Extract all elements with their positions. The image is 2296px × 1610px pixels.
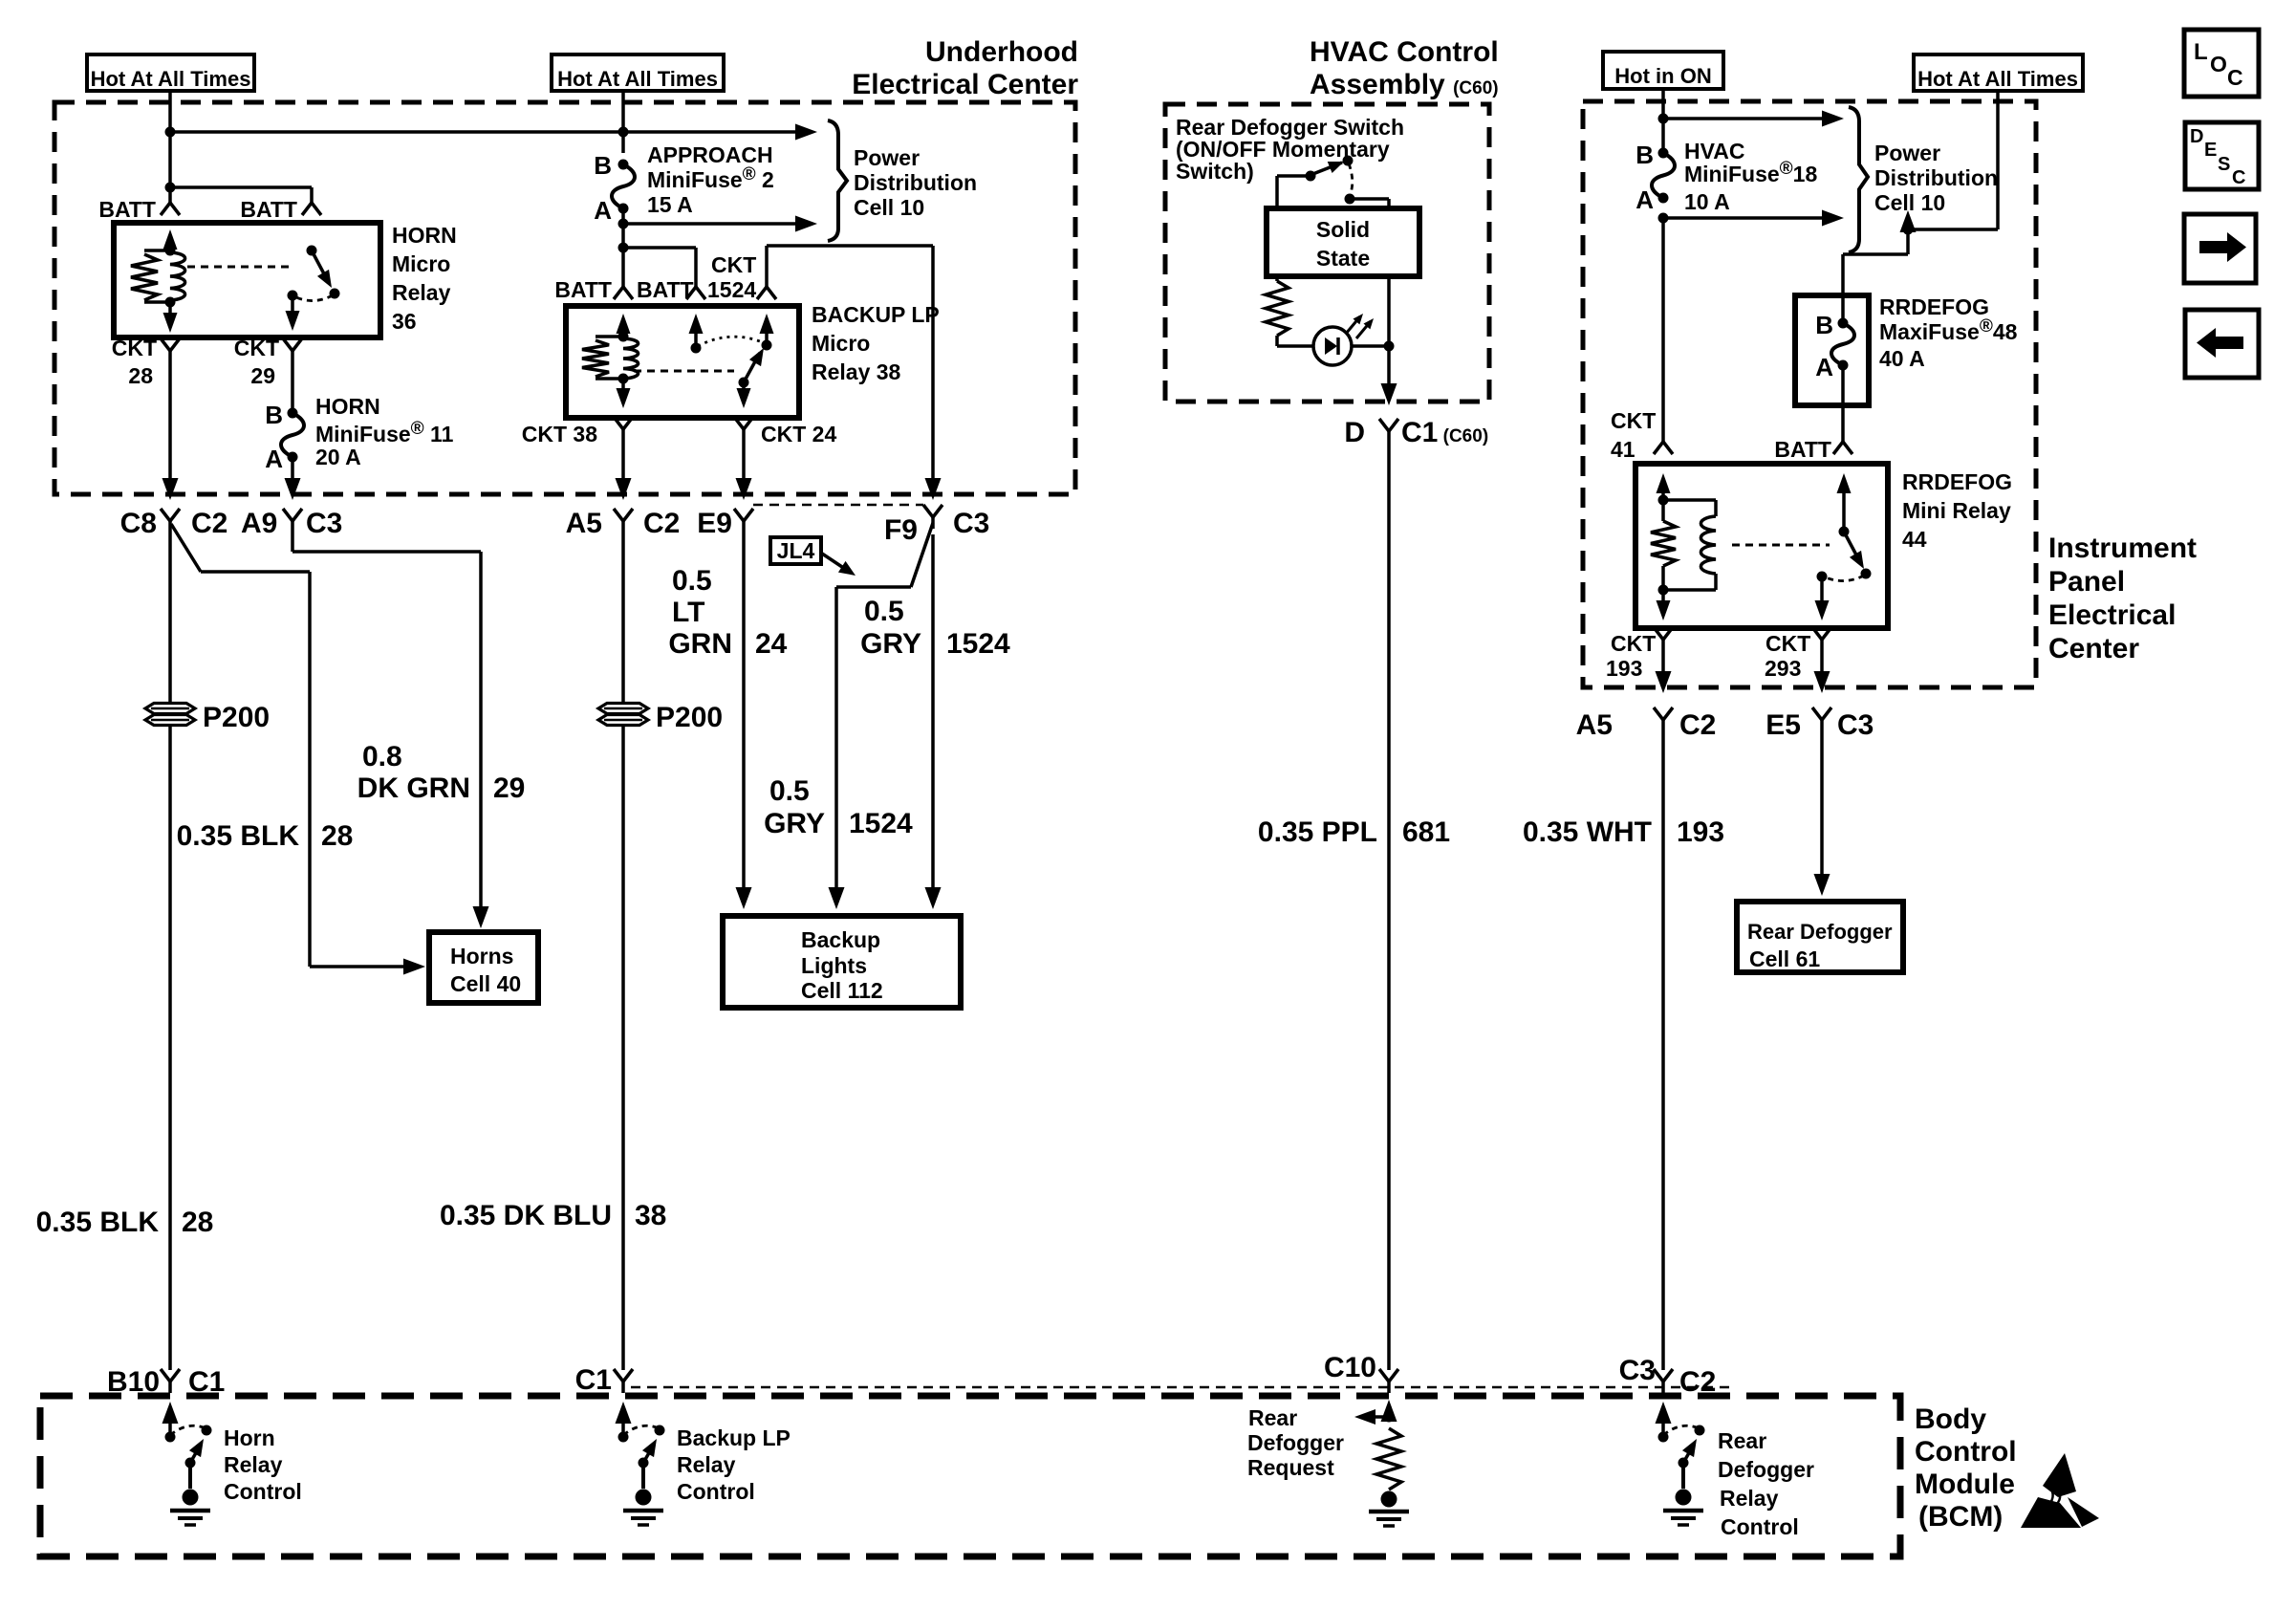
pin connector BATT (relay 38 switch) [686, 287, 705, 299]
junction dot below fuse [618, 219, 629, 229]
relay38 throw dashed arc [698, 337, 765, 346]
svg-text:1524: 1524 [849, 808, 913, 839]
fuse APPROACH MiniFuse 2 [612, 160, 635, 214]
label CKT 293 [1765, 631, 1810, 681]
svg-text:Solid: Solid [1316, 217, 1370, 242]
label E9 [697, 508, 732, 539]
svg-text:Horns: Horns [450, 944, 513, 968]
defogger switch wiring [1277, 176, 1310, 208]
LED light arrows [1346, 311, 1376, 338]
relay38 pivot pin arrow [760, 314, 774, 345]
label 0.8 DK GRN 29 [357, 741, 526, 804]
svg-text:29: 29 [493, 772, 525, 804]
relay38 pivot dot [762, 340, 772, 351]
svg-text:HORN: HORN [392, 223, 457, 248]
relay38 output contact dot [739, 378, 749, 388]
label C1 (C60) [1401, 417, 1488, 448]
svg-text:44: 44 [1902, 527, 1927, 552]
connector A5/C2 [614, 509, 633, 533]
svg-text:A: A [594, 196, 612, 225]
power distribution arrow 2 [623, 216, 817, 232]
wire C3 1524 down [925, 534, 942, 909]
svg-text:RRDEFOG: RRDEFOG [1879, 294, 1989, 319]
relay box RRDEFOG Mini Relay 44 [1635, 464, 1888, 628]
label A5 [1576, 709, 1613, 741]
label 0.5 GRY 1524 (right wire) [860, 596, 1010, 660]
sidebar next-page arrow icon [2184, 214, 2256, 283]
svg-text:Distribution: Distribution [1874, 165, 1998, 190]
wire Hot in ON down [1661, 89, 1665, 153]
svg-text:Power: Power [854, 145, 920, 170]
junction dot coil bottom [618, 374, 629, 384]
svg-text:C1: C1 [188, 1366, 225, 1398]
svg-text:Relay 38: Relay 38 [812, 359, 901, 384]
svg-text:(BCM): (BCM) [1918, 1501, 2003, 1533]
junction dot coil bottom [1658, 585, 1669, 596]
svg-text:1524: 1524 [946, 628, 1010, 660]
relay38 resistor branch [582, 337, 623, 379]
svg-text:Module: Module [1915, 1469, 2015, 1500]
svg-text:C8: C8 [120, 508, 157, 539]
svg-text:BATT: BATT [637, 277, 694, 302]
svg-text:RRDEFOG: RRDEFOG [1902, 469, 2012, 494]
connector E9 [734, 509, 753, 533]
horn relay switch arm contact dot [330, 289, 340, 299]
relay44 switch arm [1844, 532, 1870, 573]
svg-text:0.5: 0.5 [769, 775, 810, 807]
svg-text:E5: E5 [1765, 709, 1801, 741]
power distribution brace (IP) [1849, 107, 1868, 252]
junction dot coil bottom [165, 297, 176, 308]
svg-text:CKT: CKT [711, 252, 756, 277]
svg-text:MiniFuse®18: MiniFuse®18 [1684, 159, 1817, 186]
wire CKT 28 down to border [162, 362, 179, 500]
wire CKT193 down to BCM [1661, 731, 1665, 1370]
svg-text:Control: Control [224, 1479, 302, 1504]
svg-text:S: S [2218, 154, 2230, 175]
inline connector P200 [145, 702, 270, 733]
label Rear Defogger Relay Control [1718, 1428, 1814, 1539]
wire E5 down to rear defogger [1814, 731, 1830, 896]
connector B10/C1 [161, 1369, 180, 1393]
label E5 [1765, 709, 1801, 741]
connector C1 (backup) [614, 1369, 633, 1393]
svg-text:GRY: GRY [860, 628, 921, 660]
pin connector BATT (relay 38 coil) [614, 287, 633, 299]
label HORN Micro Relay 36 [392, 223, 457, 334]
label BATT [554, 277, 612, 302]
relay box BACKUP LP Micro Relay 38 [566, 306, 799, 418]
horn relay coil [170, 252, 185, 300]
label C3 [306, 508, 342, 539]
svg-text:A: A [1815, 353, 1833, 381]
fuse HORN MiniFuse 11 [281, 408, 304, 463]
junction dot coil top [1658, 495, 1669, 506]
sidebar DESC icon [2185, 122, 2259, 189]
svg-text:Cell 40: Cell 40 [450, 971, 521, 996]
Rear Defogger Relay Control switch [1656, 1402, 1705, 1525]
svg-text:B: B [265, 401, 283, 429]
box Horns Cell 40 [429, 932, 538, 1003]
label Underhood Electrical Center [852, 36, 1078, 100]
svg-text:0.35 DK BLU: 0.35 DK BLU [440, 1200, 612, 1231]
label CKT 24 [761, 422, 836, 446]
svg-text:A: A [265, 445, 283, 473]
wire CKT 41 down [1661, 218, 1665, 442]
svg-text:LT: LT [672, 597, 704, 628]
label B [1635, 141, 1654, 169]
svg-text:C1: C1 [575, 1364, 612, 1396]
svg-text:Hot At All Times: Hot At All Times [91, 67, 251, 91]
junction dot coil top [165, 246, 176, 256]
pin connector CKT 1524 [757, 287, 776, 299]
label D [1344, 417, 1365, 448]
svg-text:C3: C3 [953, 508, 989, 539]
label C2 [1679, 1366, 1716, 1398]
svg-text:C2: C2 [643, 508, 680, 539]
label 0.35 DK BLU 38 [440, 1200, 666, 1231]
defogger switch dashed throw [1349, 163, 1353, 196]
label Rear Defogger Switch (ON/OFF Momentary Switch) [1176, 115, 1404, 184]
svg-text:HVAC Control: HVAC Control [1310, 36, 1499, 68]
label C2 [643, 508, 680, 539]
connector E5/C3 (IP) [1812, 707, 1831, 731]
svg-text:20 A: 20 A [315, 445, 361, 469]
label C2 [191, 508, 227, 539]
junction dot below fuse [1658, 213, 1669, 224]
label C1 [575, 1364, 612, 1396]
connector CKT 28 below horn relay [161, 338, 180, 362]
svg-text:CKT 24: CKT 24 [761, 422, 836, 446]
svg-text:15 A: 15 A [647, 192, 693, 217]
svg-text:Rear: Rear [1248, 1405, 1297, 1430]
svg-text:BATT: BATT [554, 277, 612, 302]
svg-text:Control: Control [677, 1479, 755, 1504]
label BATT [98, 197, 156, 222]
svg-text:BATT: BATT [98, 197, 156, 222]
header box 'Hot in ON' [1603, 52, 1723, 89]
svg-text:State: State [1316, 246, 1370, 271]
svg-text:Hot in ON: Hot in ON [1614, 64, 1711, 88]
connector F9/C3 [923, 505, 942, 529]
svg-text:CKT: CKT [1611, 408, 1656, 433]
svg-text:Hot At All Times: Hot At All Times [1917, 67, 2078, 91]
wire CKT 1524 feed [767, 246, 942, 500]
label B [594, 151, 612, 180]
svg-text:MiniFuse® 11: MiniFuse® 11 [315, 419, 454, 446]
svg-text:A9: A9 [241, 508, 277, 539]
resistor (HVAC) [1266, 281, 1289, 336]
label BATT [240, 197, 297, 222]
Horn Relay Control switch [162, 1402, 212, 1525]
wire from left Hot At All Times down [168, 91, 172, 203]
header box 'Hot At All Times' (left) [87, 54, 254, 91]
svg-text:Instrument: Instrument [2048, 533, 2197, 564]
relay44 arm contact dot [1861, 569, 1872, 579]
svg-text:Backup LP: Backup LP [677, 1425, 791, 1450]
connector C3/C2 (BCM) [1654, 1369, 1673, 1393]
svg-text:C: C [2227, 65, 2243, 90]
svg-text:E: E [2204, 140, 2217, 161]
svg-text:Cell 112: Cell 112 [801, 978, 883, 1003]
connector CKT 193 [1654, 627, 1673, 651]
wire CKT 38 to border [616, 441, 632, 500]
svg-text:38: 38 [635, 1200, 666, 1231]
relay44 control dashed link [1732, 544, 1830, 547]
relay38 coil out arrow [617, 379, 631, 408]
power distribution arrow 2 (IP) [1663, 210, 1844, 227]
svg-text:CKT: CKT [1765, 631, 1810, 656]
svg-text:HVAC: HVAC [1684, 139, 1744, 163]
svg-text:0.5: 0.5 [672, 565, 712, 597]
Backup LP Relay Control switch [616, 1402, 665, 1525]
inline connector P200 [598, 702, 723, 733]
Instrument Panel Electrical Center dashed box [1583, 101, 2036, 687]
wire E9 down to backup lights [736, 533, 752, 909]
ESD warning symbol [2021, 1453, 2099, 1528]
svg-text:P200: P200 [656, 702, 723, 733]
svg-text:0.35 WHT: 0.35 WHT [1523, 816, 1652, 848]
connector CKT 29 below horn relay [283, 338, 302, 362]
label 0.35 BLK 28 (lower) [36, 1207, 214, 1238]
svg-text:C10: C10 [1324, 1352, 1376, 1383]
wire HVAC to BCM C10 [1387, 443, 1391, 1370]
svg-text:0.8: 0.8 [362, 741, 402, 772]
label HVAC Control Assembly (C60) [1310, 36, 1499, 100]
junction dot [1658, 114, 1669, 124]
svg-text:1524: 1524 [707, 277, 756, 302]
svg-text:Underhood: Underhood [925, 36, 1078, 68]
svg-text:Rear: Rear [1718, 1428, 1766, 1453]
label A [1815, 353, 1833, 381]
svg-text:E9: E9 [697, 508, 732, 539]
wire branch to BATT2 of relay 38 [623, 248, 696, 287]
power distribution arrow 1 (IP) [1663, 111, 1844, 127]
svg-text:Micro: Micro [812, 331, 870, 356]
defogger switch pole dot [1306, 171, 1316, 182]
relay38 switch arm [744, 345, 769, 383]
svg-text:MiniFuse® 2: MiniFuse® 2 [647, 164, 774, 192]
svg-text:Cell 61: Cell 61 [1749, 946, 1820, 971]
box Backup Lights Cell 112 [723, 916, 961, 1008]
horn relay control dashed link [187, 266, 294, 269]
svg-text:BATT: BATT [240, 197, 297, 222]
label 0.35 WHT 193 [1523, 816, 1724, 848]
svg-text:193: 193 [1677, 816, 1724, 848]
svg-text:C2: C2 [1679, 709, 1716, 741]
svg-text:CKT: CKT [112, 336, 157, 360]
junction dot relay feed [618, 243, 629, 253]
svg-text:Rear Defogger: Rear Defogger [1747, 920, 1893, 944]
svg-text:24: 24 [755, 628, 788, 660]
svg-text:A5: A5 [1576, 709, 1613, 741]
wire solid state right down [1381, 276, 1397, 405]
svg-text:0.35 BLK: 0.35 BLK [177, 820, 300, 852]
svg-text:Control: Control [1915, 1436, 2017, 1468]
svg-text:B: B [1635, 141, 1654, 169]
svg-text:Panel: Panel [2048, 566, 2125, 598]
label Power Distribution Cell 10 (IP) [1874, 141, 1998, 215]
wire CKT 193 to border [1656, 651, 1672, 693]
wire CKT 29 to fuse [291, 362, 294, 413]
label A [265, 445, 283, 473]
label Instrument Panel Electrical Center [2048, 533, 2197, 664]
label BACKUP LP Micro Relay 38 [812, 302, 940, 384]
wire right Hot At All Times down [1908, 91, 1998, 229]
wire below P200 [168, 727, 172, 1370]
svg-text:Lights: Lights [801, 953, 867, 978]
defogger switch arm [1310, 156, 1346, 175]
label C10 [1324, 1352, 1376, 1383]
svg-text:Relay: Relay [224, 1452, 283, 1477]
power distribution arrow 1 [623, 124, 817, 141]
relay38 coil [623, 338, 639, 379]
pin connector BATT (mini relay) [1833, 442, 1852, 454]
thin dashed connector line E9-F9 [753, 504, 923, 507]
svg-text:L: L [2194, 39, 2208, 65]
wire bus to approach fuse [170, 130, 623, 134]
horn relay switch arm [312, 250, 337, 292]
junction dot coil top [618, 332, 629, 342]
label C3 [1619, 1355, 1656, 1386]
sidebar LOC icon [2184, 30, 2259, 97]
svg-text:0.35 PPL: 0.35 PPL [1258, 816, 1377, 848]
label HORN MiniFuse 11 20 A [315, 394, 454, 469]
label C2 [1679, 709, 1716, 741]
svg-text:C3: C3 [1837, 709, 1874, 741]
relay38 NC contact dot [691, 343, 702, 354]
svg-text:HORN: HORN [315, 394, 380, 419]
wire fuse A down to border [285, 457, 301, 500]
svg-text:F9: F9 [884, 514, 918, 546]
junction dot LED to output [1384, 341, 1395, 352]
svg-text:28: 28 [321, 820, 353, 852]
label Body Control Module (BCM) [1915, 1403, 2017, 1533]
wire from center Hot At All Times down [621, 91, 625, 153]
horn relay resistor branch [131, 250, 170, 302]
JL4 option box [770, 537, 821, 564]
wire below P200 to BCM [621, 727, 625, 1370]
sidebar prev-page arrow icon [2185, 310, 2259, 378]
horn relay switch throw dashed arc [296, 295, 333, 301]
label C8 [120, 508, 157, 539]
wire A9/C3 to horns arrow [292, 534, 489, 928]
label CKT 38 [522, 422, 597, 446]
wire to solid state [1350, 199, 1389, 208]
label A5 [566, 508, 602, 539]
wire F9 jog branch [829, 523, 934, 909]
svg-text:Defogger: Defogger [1718, 1457, 1814, 1482]
svg-text:Cell 10: Cell 10 [1874, 190, 1945, 215]
HVAC Control Assembly dashed box [1165, 104, 1489, 402]
defogger switch lower contact dot [1345, 194, 1355, 205]
label CKT 193 [1606, 631, 1656, 681]
label HVAC MiniFuse 18 10 A [1684, 139, 1817, 214]
label CKT 28 [112, 336, 157, 388]
connector A9/C3 [283, 509, 302, 534]
label B [1815, 311, 1833, 339]
svg-text:Distribution: Distribution [854, 170, 977, 195]
svg-text:C: C [2232, 167, 2245, 188]
svg-text:Relay: Relay [1720, 1486, 1779, 1511]
connector CKT 293 [1812, 627, 1831, 651]
relay44 resistor [1651, 500, 1676, 590]
svg-text:Mini Relay: Mini Relay [1902, 498, 2011, 523]
label CKT 29 [234, 336, 279, 388]
relay38 control dashed link [634, 370, 734, 373]
svg-text:Relay: Relay [392, 280, 451, 305]
horn relay switch pivot [307, 246, 317, 256]
svg-text:Relay: Relay [677, 1452, 736, 1477]
label BATT [1774, 437, 1831, 462]
svg-text:28: 28 [182, 1207, 213, 1238]
svg-text:10 A: 10 A [1684, 189, 1730, 214]
wire C2 down to BCM [168, 533, 172, 702]
relay44 switch pin arrow [1837, 473, 1852, 532]
junction dot [1903, 225, 1914, 235]
svg-text:0.35 BLK: 0.35 BLK [36, 1207, 160, 1238]
svg-text:CKT: CKT [234, 336, 279, 360]
label C3 [1837, 709, 1874, 741]
svg-text:GRN: GRN [668, 628, 732, 660]
fuse RRDEFOG MaxiFuse 48 [1831, 295, 1854, 405]
svg-text:193: 193 [1606, 656, 1642, 681]
svg-text:BATT: BATT [1774, 437, 1831, 462]
svg-text:Request: Request [1247, 1455, 1334, 1480]
horn relay coil pin arrow [163, 229, 178, 250]
svg-text:40 A: 40 A [1879, 346, 1925, 371]
svg-text:Electrical: Electrical [2048, 599, 2176, 631]
svg-text:A5: A5 [566, 508, 602, 539]
svg-text:JL4: JL4 [777, 538, 815, 563]
svg-text:B: B [594, 151, 612, 180]
svg-text:P200: P200 [203, 702, 270, 733]
connector C8/C2 [161, 509, 180, 533]
svg-text:D: D [2190, 126, 2203, 147]
svg-text:41: 41 [1611, 437, 1635, 462]
label Backup LP Relay Control [677, 1425, 791, 1504]
junction dot at approach fuse top [618, 127, 629, 138]
horn relay coil out arrow [163, 302, 178, 333]
box Solid State [1267, 208, 1419, 276]
label CKT 1524 [707, 252, 756, 302]
label A [594, 196, 612, 225]
wire fuse A down [621, 208, 625, 287]
relay44 coil branch [1663, 500, 1716, 590]
label 0.5 LT GRN 24 [668, 565, 787, 660]
relay38 output arrow [737, 382, 751, 408]
svg-text:Control: Control [1721, 1514, 1799, 1539]
wire to MaxiFuse [1843, 254, 1908, 295]
connector CKT 38 [614, 417, 633, 441]
connector C10 [1379, 1369, 1398, 1393]
wire C8 diagonal to horns [171, 524, 425, 975]
svg-text:Hot At All Times: Hot At All Times [557, 67, 718, 91]
connector D/C1 (C60) [1379, 419, 1398, 443]
svg-text:C2: C2 [191, 508, 227, 539]
label 0.35 PPL 681 [1258, 816, 1450, 848]
label RRDEFOG Mini Relay 44 [1902, 469, 2012, 552]
label Rear Defogger Request [1247, 1405, 1344, 1480]
relay box HORN Micro Relay 36 [114, 223, 380, 337]
box Rear Defogger Cell 61 [1737, 902, 1903, 972]
LED indicator [1313, 327, 1384, 365]
svg-text:GRY: GRY [764, 808, 825, 839]
label B10 [107, 1366, 160, 1398]
svg-text:Power: Power [1874, 141, 1940, 165]
relay44 pivot dot [1839, 527, 1850, 537]
header box 'Hot At All Times' (right) [1914, 54, 2083, 91]
